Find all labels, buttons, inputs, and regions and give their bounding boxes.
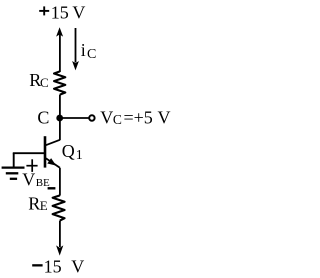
svg-text:=+5: =+5 — [124, 107, 153, 127]
supply label +15 V — [39, 3, 85, 23]
transistor Q1: emitter arrowhead — [47, 158, 56, 166]
svg-text:V: V — [71, 256, 84, 276]
svg-text:V: V — [100, 107, 113, 127]
svg-text:V: V — [72, 3, 85, 23]
node C junction dot — [56, 115, 63, 122]
wire: RE to -15V arrow (down) — [56, 221, 63, 256]
svg-text:R: R — [28, 193, 40, 213]
wire: emitter to RE — [59, 168, 61, 196]
svg-text:i: i — [81, 40, 86, 60]
transistor Q1: collector lead — [46, 140, 60, 145]
label RE — [28, 193, 48, 213]
svg-text:15: 15 — [51, 3, 69, 23]
transistor Q1: base bar — [44, 136, 47, 167]
svg-text:1: 1 — [76, 148, 83, 163]
svg-text:C: C — [113, 112, 122, 127]
wire: base to ground — [13, 152, 46, 154]
wire: +15V supply arrow (up) — [56, 27, 63, 72]
svg-text:V: V — [158, 107, 171, 127]
wire: RC bottom to collector — [59, 95, 61, 141]
wire: node C to output terminal — [60, 117, 89, 119]
svg-text:C: C — [40, 75, 49, 90]
ground — [2, 153, 25, 179]
label RC — [29, 70, 48, 90]
svg-text:15: 15 — [44, 256, 62, 276]
svg-text:C: C — [37, 107, 49, 127]
label + (VBE polarity) — [26, 159, 37, 172]
transistor Q1: emitter lead — [46, 158, 60, 168]
svg-text:C: C — [87, 47, 96, 62]
terminal VC (open circle) — [89, 115, 94, 120]
label - (VBE polarity) — [48, 187, 56, 189]
label Q1 — [62, 141, 83, 163]
resistor RE — [53, 195, 65, 220]
label VC = +5 V — [100, 107, 170, 127]
current arrow iC (down) — [72, 28, 79, 70]
svg-text:V: V — [22, 170, 35, 190]
label VBE — [22, 170, 50, 190]
resistor RC — [54, 71, 65, 94]
svg-text:Q: Q — [62, 141, 75, 161]
svg-text:BE: BE — [36, 177, 50, 189]
supply label -15 V — [32, 256, 84, 276]
svg-text:E: E — [40, 198, 48, 213]
